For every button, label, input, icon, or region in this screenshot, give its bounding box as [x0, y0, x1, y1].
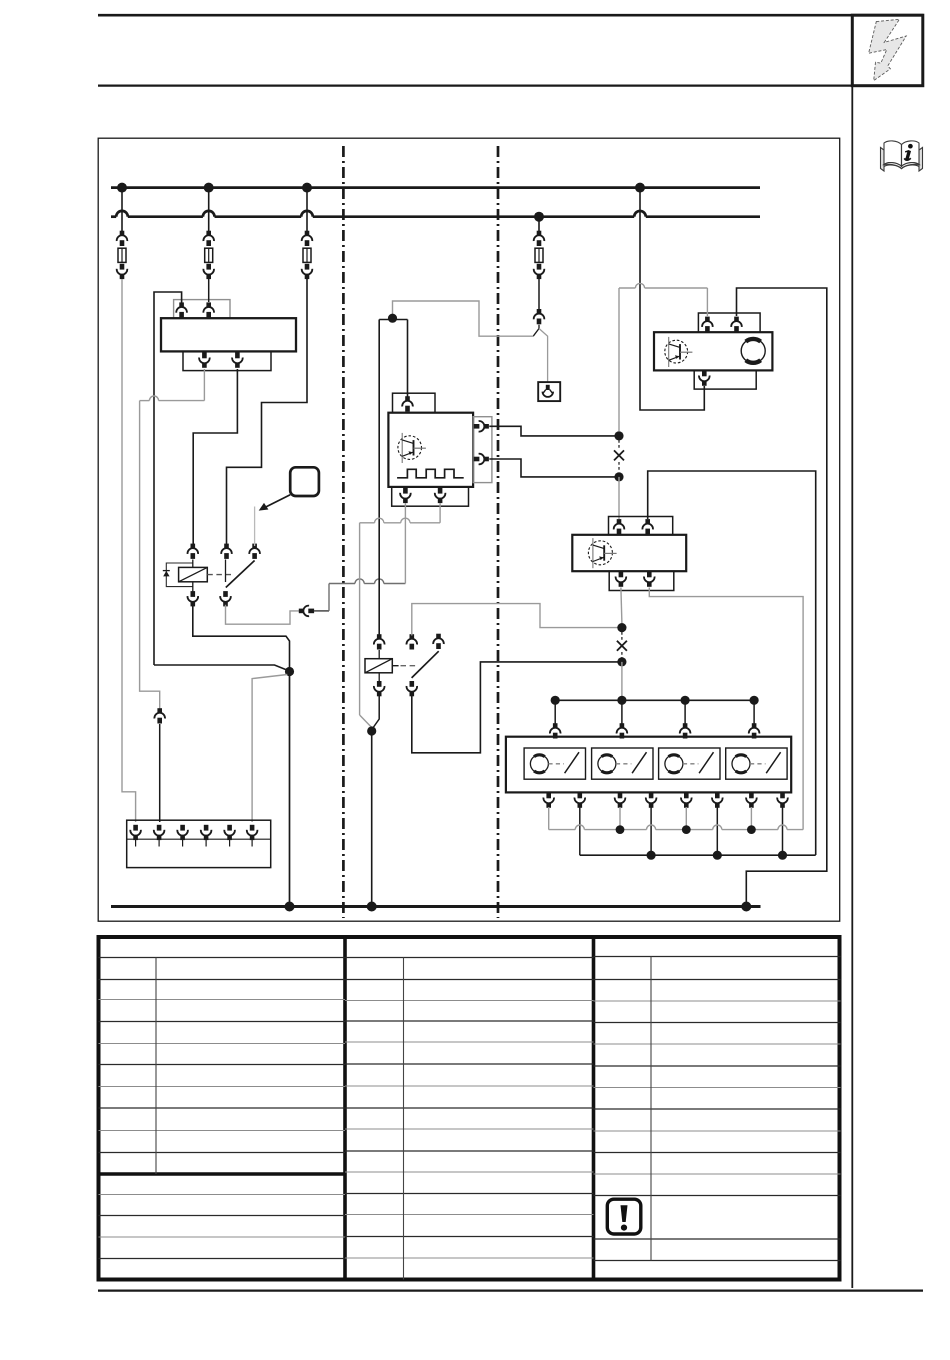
- injector N3 top pin: [680, 723, 691, 738]
- control unit J right pin 2: [474, 454, 489, 465]
- wire node A to ground bus: [289, 672, 291, 907]
- wire M1 pin 1 up-left and down left side: [154, 292, 182, 665]
- wire J right pin1 to node F: [489, 426, 619, 436]
- wire J right pin2 to node G: [489, 459, 619, 477]
- legend table column divider 2: [592, 937, 596, 1280]
- legend table column divider 1: [343, 937, 347, 1280]
- right page divider rule: [851, 15, 853, 1288]
- callout reference box: [290, 467, 319, 496]
- wire bus30 node to G bottom pin: [640, 192, 704, 410]
- injector valve N3: [659, 748, 720, 779]
- header bottom rule: [98, 84, 923, 86]
- strip T6 pin 2: [154, 825, 165, 840]
- control unit J bottom pin 1: [400, 488, 411, 503]
- ground bus (bottom rail): [111, 905, 761, 908]
- component G bottom connector housing: [694, 370, 756, 389]
- component G top connector housing: [698, 313, 760, 332]
- wire K1 pin85 to node A: [193, 605, 290, 668]
- relay K2 coil lower pin: [374, 681, 385, 696]
- callout arrow: [265, 495, 291, 508]
- legend table outer border: [99, 937, 840, 1280]
- wire fuse F1 to strip T6 pin 1 (grey): [122, 279, 136, 822]
- component C top connector housing: [609, 517, 673, 535]
- stub N3a to grey bus: [685, 807, 687, 830]
- injector feed rail: [555, 699, 754, 701]
- injector N2 top pin: [617, 723, 628, 738]
- wire bus30 to fuse F2: [208, 188, 210, 231]
- stub N4b to black bus: [782, 807, 784, 855]
- component C bottom pin 2: [644, 572, 655, 587]
- legend col1 thick divider: [99, 1172, 346, 1175]
- legend col2 sub-divider: [403, 958, 405, 1280]
- control unit J right pin 1: [474, 421, 489, 432]
- component G pin +: [702, 317, 713, 332]
- black bus node 4: [778, 851, 787, 860]
- fuse F4: [534, 231, 545, 246]
- inline connector C3 (horizontal): [299, 606, 314, 617]
- hall transistor symbol in J: [398, 436, 422, 460]
- injector N3 bottom pin b: [712, 793, 723, 808]
- electric hazard icon box: [852, 15, 923, 86]
- wire connector C3 to control unit J pin (dark grey): [314, 610, 329, 612]
- strip T6 pin 3: [177, 825, 188, 840]
- stub N4a to grey bus: [750, 807, 752, 830]
- wire fuse F3 to switch S1 upper contact: [227, 279, 308, 546]
- injector N4 top pin: [749, 723, 760, 738]
- legend col3 sub-divider: [650, 957, 652, 1261]
- injector N4 bottom pin b: [777, 793, 788, 808]
- component C bottom connector housing: [609, 571, 674, 590]
- injector N3 bottom pin a: [681, 793, 692, 808]
- wire node G to component C pin 1 (grey): [618, 477, 620, 519]
- connector housing T2a on M1: [174, 300, 230, 319]
- wire fuse F2 to M1 pin 2: [208, 279, 210, 302]
- Y-split of wire from C4: [533, 325, 539, 336]
- wire node A to strip T6 pin 6 (grey): [252, 675, 287, 823]
- node D junction: [617, 623, 626, 632]
- control unit J top connector housing: [393, 393, 436, 413]
- wire bus15 to fuse F4: [538, 217, 540, 231]
- switch S1 upper contact pin: [221, 544, 232, 559]
- connector housing T2b on M1: [183, 351, 271, 370]
- wire node B to control unit J top pin: [407, 320, 409, 398]
- strip T6 pin 6: [247, 825, 258, 840]
- ground node H: [741, 902, 751, 912]
- section separator dash-dot line left: [342, 146, 345, 918]
- warning icon box: [607, 1199, 641, 1234]
- footer rule: [98, 1289, 923, 1291]
- wire bus30 to fuse F3: [306, 188, 308, 231]
- lightning bolt icon: [869, 19, 907, 80]
- injector valve N1: [524, 748, 585, 779]
- wire bus30 to fuse F1: [121, 188, 123, 231]
- relay K2 coil: [365, 659, 392, 673]
- wire connector C2 to strip T6 pin 2: [159, 724, 161, 822]
- diode D1 loop parallel to K1 coil: [166, 563, 193, 587]
- injector N2 bottom pin b: [646, 793, 657, 808]
- header top rule: [98, 14, 923, 17]
- control unit J bottom pin 2: [435, 488, 446, 503]
- legend col1 sub-divider: [155, 958, 157, 1175]
- injector N1 top pin: [550, 723, 561, 738]
- separation point X1: [618, 440, 620, 449]
- rail node 2: [617, 696, 626, 705]
- fuse F2: [203, 231, 214, 246]
- legend col1 lower rows: [99, 1194, 346, 1196]
- black bus node 2: [647, 851, 656, 860]
- switch S1 lower pin: [220, 591, 231, 606]
- inline connector C2: [154, 708, 165, 723]
- rail node 1: [551, 696, 560, 705]
- strip T6 pin 4: [201, 825, 212, 840]
- pin 86 of K1: [188, 544, 199, 559]
- open book info icon: [881, 141, 923, 171]
- node bus30/F1: [117, 183, 127, 193]
- wire S1 lower pin to connector C3: [226, 605, 300, 624]
- fuse F3: [302, 231, 313, 246]
- inline connector C4 below fuse F4: [534, 309, 545, 324]
- node E junction: [617, 657, 626, 666]
- node C junction: [367, 726, 376, 735]
- rail stub to N4 pin: [753, 700, 755, 724]
- pin 1 of M1: [176, 302, 187, 317]
- injector valve N2: [592, 748, 653, 779]
- grey return bus under injectors: [549, 829, 576, 831]
- black return bus under injectors: [580, 854, 816, 856]
- legend col1 rows: [99, 957, 346, 959]
- screened joint box B1: [538, 382, 560, 401]
- separation point X2: [621, 632, 623, 640]
- V merge of K2 wires into node C: [360, 715, 372, 728]
- rail stub to N1 pin: [554, 700, 556, 724]
- wire G pin+ to node F (grey, hops bus wire): [706, 288, 708, 316]
- pin 3 of M1: [199, 353, 210, 368]
- control unit J bottom connector housing: [392, 487, 469, 506]
- switch S2 blade: [412, 651, 439, 678]
- switch S1 alternate contact pin: [249, 544, 260, 559]
- stub N2a to grey bus: [619, 807, 621, 830]
- node F junction: [614, 431, 623, 440]
- dashed actuation link K2 to S2: [392, 665, 398, 667]
- motor symbol in G: [741, 339, 765, 363]
- stub N1a to grey bus: [548, 807, 550, 830]
- strip T6 pin 5: [224, 825, 235, 840]
- node bus30/F3: [302, 183, 312, 193]
- warning exclamation mark: [621, 1205, 628, 1222]
- component C pin 2: [642, 519, 653, 534]
- control unit J pin T: [402, 396, 413, 411]
- switch S2 upper pin: [407, 634, 418, 649]
- letter i of info icon: [904, 144, 913, 160]
- faint wire to S1 alternate contact: [254, 507, 256, 547]
- node bus30/G-feed: [635, 183, 645, 193]
- component C pin 1: [614, 519, 625, 534]
- ground node C2: [367, 902, 377, 912]
- grey bus node 2: [616, 825, 625, 834]
- wire node C to ground bus: [371, 731, 373, 907]
- wire C bottom pin2 to grey return bus: [649, 588, 803, 830]
- transistor symbol in G: [665, 340, 688, 363]
- transistor symbol in C: [588, 541, 612, 565]
- injector N1 bottom pin b: [575, 793, 586, 808]
- wire G pin- to ground via right side: [737, 288, 827, 907]
- stub N2b to black bus: [650, 807, 652, 855]
- wire component C pin2 up to right rail: [648, 471, 816, 855]
- component C body: [572, 535, 686, 571]
- dashed actuation link K1 to S1: [207, 574, 233, 576]
- component C bottom pin 1: [616, 572, 627, 587]
- node B junction: [379, 319, 407, 321]
- wire J bottom pin2 to relay K2 branch (grey): [439, 503, 441, 523]
- wire S2 lower pin to node E: [412, 662, 622, 753]
- strip T6 pin 1: [130, 825, 141, 840]
- stub N1b to black bus: [579, 807, 581, 855]
- grey bus node 4: [747, 825, 756, 834]
- injector N1 bottom pin a: [543, 793, 554, 808]
- wire J bottom pin1 down (grey): [404, 503, 406, 584]
- component G bottom pin: [699, 371, 710, 386]
- legend col2 rows: [345, 957, 594, 959]
- control unit J body: [388, 413, 473, 487]
- wire M1 pin 4 to relay K1 coil top: [193, 369, 237, 546]
- node bus30/F2: [204, 183, 214, 193]
- node A junction: [285, 667, 294, 676]
- rail stub to N2 pin: [621, 700, 623, 724]
- section separator dash-dot line right: [497, 146, 500, 918]
- component M1 body: [161, 318, 296, 351]
- connector strip T6 housing: [127, 820, 271, 867]
- stub N3b to black bus: [716, 807, 718, 855]
- wire S2 upper pin to node D (grey): [412, 604, 622, 636]
- node bus15/F4: [534, 212, 544, 222]
- pin 85 of K1: [188, 591, 199, 606]
- pulse waveform symbol in J: [397, 469, 464, 478]
- relay K1 coil: [179, 567, 208, 581]
- legend col3 rows: [594, 956, 841, 958]
- control unit J right connector housing: [473, 417, 492, 483]
- rail node 4: [750, 696, 759, 705]
- grey bus node 3: [682, 825, 691, 834]
- grey wire from Y-split to node B over control unit: [393, 301, 534, 336]
- wire M1 pin 3 down to connector C2 (grey): [203, 369, 205, 401]
- bus 15 (second supply rail, hops over drop wires): [111, 215, 116, 218]
- switch S2 alternate pin: [433, 634, 444, 649]
- injector block housing: [506, 737, 791, 793]
- rail node 3: [681, 696, 690, 705]
- component G pin -: [731, 317, 742, 332]
- injector valve N4: [726, 748, 787, 779]
- component G body: [654, 332, 772, 370]
- wire left branch to node A: [154, 665, 288, 670]
- switch S2 lower pin: [407, 681, 418, 696]
- wire node B down to relay K2 coil: [378, 320, 380, 636]
- wire fuse F4 to connector C4: [538, 279, 540, 310]
- pin 2 of M1: [203, 302, 214, 317]
- black bus node 3: [713, 851, 722, 860]
- injector N4 bottom pin a: [746, 793, 757, 808]
- wire C bottom pin1 to node D (grey): [621, 588, 622, 624]
- bus 30 (top supply rail): [111, 186, 760, 189]
- node G junction: [614, 472, 623, 481]
- switch S1 blade: [226, 561, 255, 588]
- schematic border frame: [98, 138, 840, 921]
- ground node A2: [285, 902, 295, 912]
- pin 4 of M1: [232, 353, 243, 368]
- rail stub to N3 pin: [684, 700, 686, 724]
- relay K2 coil pin: [374, 634, 385, 649]
- injector N2 bottom pin a: [615, 793, 626, 808]
- wire node E to injector rail (grey): [621, 662, 623, 700]
- fuse F1: [117, 231, 128, 246]
